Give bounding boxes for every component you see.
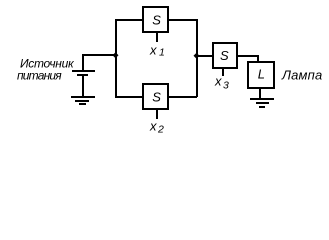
wire S3 to lamp horizontal: [237, 55, 259, 57]
ground under lamp bar2: [256, 102, 269, 104]
battery B1 long plate: [72, 70, 95, 72]
ground under battery bar2: [75, 100, 89, 102]
ground under lamp bar3: [259, 106, 265, 108]
svg-text:S: S: [152, 13, 161, 28]
ground under lamp bar1: [250, 98, 274, 100]
node junction dot right: [194, 53, 200, 59]
switch S2 box: [142, 83, 169, 110]
wire S2 to right trunk: [168, 96, 197, 98]
wire trunk to S3: [197, 55, 212, 57]
svg-text:3: 3: [223, 80, 229, 92]
pin stub x3: [222, 69, 224, 76]
wire bottom branch to S2: [115, 96, 143, 98]
ground under battery bar1: [71, 96, 95, 98]
wire top branch to S1: [115, 19, 143, 21]
node junction dot left: [113, 52, 119, 58]
switch S1 box: [142, 6, 169, 33]
pin stub x1: [156, 33, 158, 42]
svg-text:2: 2: [157, 124, 164, 136]
svg-text:S: S: [220, 48, 229, 63]
svg-text:Лампа: Лампа: [281, 68, 322, 83]
ground under battery bar3: [79, 103, 86, 105]
wire battery to ground: [82, 76, 84, 96]
wire battery top corner vertical: [82, 54, 84, 70]
switch S3 box: [212, 42, 238, 69]
wire right trunk vertical: [196, 19, 198, 97]
wire S1 to right trunk: [168, 19, 197, 21]
svg-text:x: x: [149, 119, 157, 134]
svg-text:L: L: [258, 67, 265, 82]
battery B1 short plate: [77, 74, 88, 76]
wire lamp to ground: [259, 88, 261, 98]
wire battery top corner horizontal: [82, 54, 116, 56]
svg-text:питания: питания: [17, 68, 62, 82]
wire S3 to lamp vertical: [257, 55, 259, 61]
wire left trunk vertical: [115, 19, 117, 97]
pin stub x2: [156, 110, 158, 119]
svg-text:x: x: [214, 74, 222, 89]
svg-text:S: S: [152, 90, 161, 105]
lamp L box: [247, 61, 275, 89]
svg-text:x: x: [149, 43, 157, 58]
svg-text:1: 1: [159, 47, 165, 59]
